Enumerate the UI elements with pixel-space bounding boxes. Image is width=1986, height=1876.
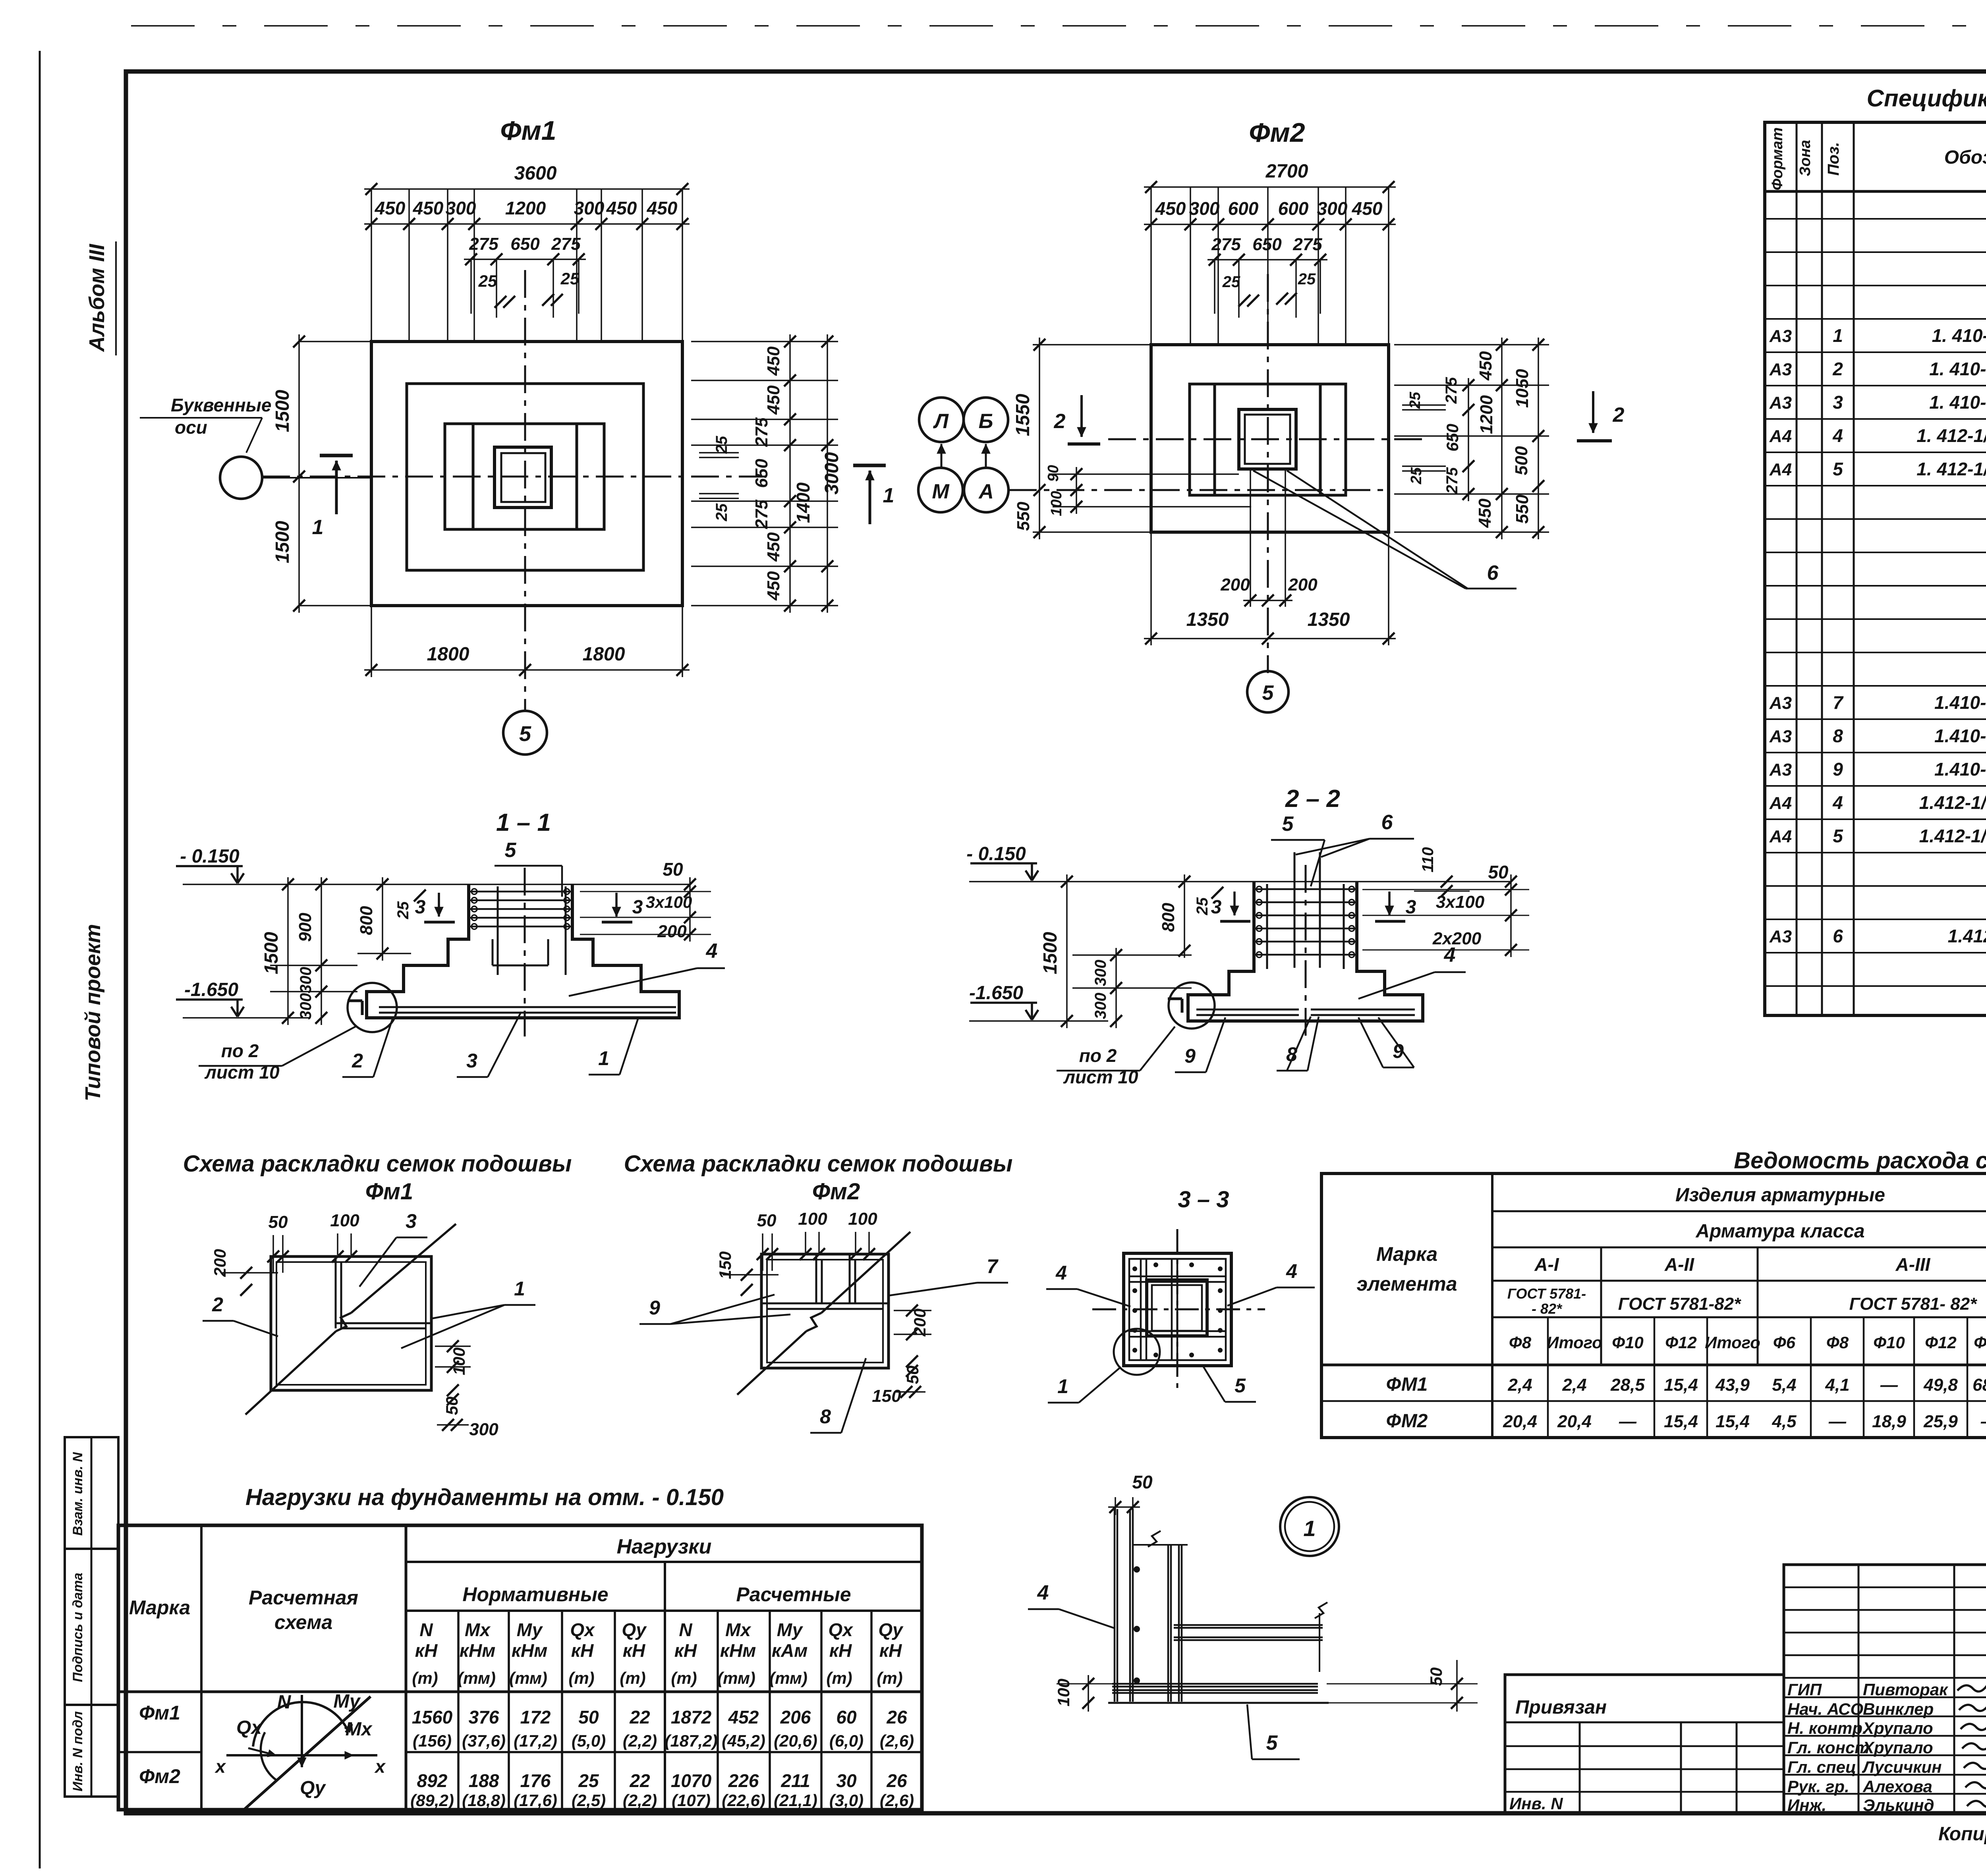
svg-text:Марка: Марка xyxy=(1376,1243,1437,1265)
svg-text:450: 450 xyxy=(606,198,637,218)
svg-text:Qх: Qх xyxy=(570,1619,595,1640)
svg-text:Расчетные: Расчетные xyxy=(736,1583,851,1606)
svg-text:7: 7 xyxy=(987,1255,999,1278)
svg-text:(2,6): (2,6) xyxy=(880,1731,914,1750)
svg-text:Фм2: Фм2 xyxy=(139,1765,180,1787)
svg-text:2700: 2700 xyxy=(1265,161,1308,182)
svg-text:3: 3 xyxy=(1211,897,1222,918)
svg-text:1: 1 xyxy=(883,484,894,507)
svg-text:5: 5 xyxy=(1833,826,1843,846)
plan Fm2 vertical centerline xyxy=(1267,274,1269,673)
svg-text:1400: 1400 xyxy=(793,482,813,523)
svg-text:Qу: Qу xyxy=(878,1619,904,1640)
svg-text:Рук. гр.: Рук. гр. xyxy=(1787,1777,1849,1796)
svg-text:А: А xyxy=(978,480,994,503)
svg-text:ГИП: ГИП xyxy=(1787,1680,1822,1699)
svg-text:ФМ1: ФМ1 xyxy=(1386,1374,1428,1395)
svg-text:450: 450 xyxy=(764,385,783,415)
svg-text:100: 100 xyxy=(330,1211,359,1230)
svg-text:1550: 1550 xyxy=(1012,394,1034,436)
svg-text:кН: кН xyxy=(879,1640,902,1661)
svg-text:450: 450 xyxy=(1155,198,1186,219)
section 1-1 section mark 3 right xyxy=(615,893,618,917)
svg-text:1872: 1872 xyxy=(671,1707,712,1727)
svg-text:300: 300 xyxy=(297,967,315,994)
svg-text:Фм1: Фм1 xyxy=(365,1179,413,1204)
detail 1 vertical bar pair inner xyxy=(1129,1509,1131,1702)
steel table diameter column lines xyxy=(1547,1317,1549,1438)
svg-text:50: 50 xyxy=(269,1212,288,1232)
svg-text:2,4: 2,4 xyxy=(1562,1375,1586,1395)
svg-text:18,9: 18,9 xyxy=(1872,1412,1906,1431)
svg-text:Хрупало: Хрупало xyxy=(1862,1719,1933,1737)
svg-text:(2,5): (2,5) xyxy=(572,1791,606,1810)
svg-text:Ф12: Ф12 xyxy=(1925,1333,1957,1352)
letter axes circle xyxy=(220,457,262,499)
svg-text:А-I: А-I xyxy=(1534,1254,1559,1275)
svg-text:x: x xyxy=(214,1756,226,1777)
svg-text:Альбом III: Альбом III xyxy=(85,243,109,352)
plan Fm2 bottom dimension 1350 1350 xyxy=(1150,532,1152,645)
svg-text:Гл. спец: Гл. спец xyxy=(1787,1758,1856,1776)
section 3-3 horizontal centerline xyxy=(1092,1309,1265,1310)
svg-text:172: 172 xyxy=(520,1707,551,1727)
specification table row lines xyxy=(1765,218,1986,220)
svg-text:1070: 1070 xyxy=(671,1770,712,1791)
scheme Fm1 internal mesh dividers xyxy=(335,1256,337,1328)
svg-text:4,1: 4,1 xyxy=(1825,1375,1849,1395)
svg-text:Qу: Qу xyxy=(300,1778,326,1799)
svg-text:Мх: Мх xyxy=(465,1619,491,1640)
svg-text:оси: оси xyxy=(175,417,207,438)
plan Fm2 left dimension 1550 550 xyxy=(1033,344,1151,345)
detail 1 rebar dots xyxy=(1134,1566,1140,1573)
section 3-3 detail circle xyxy=(1114,1329,1160,1375)
svg-text:Зона: Зона xyxy=(1797,140,1814,176)
svg-text:Му: Му xyxy=(333,1691,361,1712)
svg-text:50: 50 xyxy=(1488,862,1509,882)
section 2-2 dimension 1500 xyxy=(1066,874,1068,1028)
section 2-2 vertical centerline xyxy=(1305,865,1307,1038)
svg-text:(3,0): (3,0) xyxy=(829,1791,864,1810)
svg-text:650: 650 xyxy=(752,459,771,488)
svg-text:А4: А4 xyxy=(1769,827,1792,846)
plan Fm1 section mark 1 left xyxy=(320,454,353,457)
section 2-2 dimension 800 xyxy=(1184,874,1185,958)
svg-text:1. 410-3 выпуск 1: 1. 410-3 выпуск 1 xyxy=(1929,359,1986,379)
svg-text:Нагрузки: Нагрузки xyxy=(617,1535,712,1558)
svg-text:Изделия арматурные: Изделия арматурные xyxy=(1675,1185,1885,1206)
svg-text:Qх: Qх xyxy=(828,1619,854,1640)
svg-text:Расчетная: Расчетная xyxy=(249,1586,358,1609)
svg-text:2х200: 2х200 xyxy=(1432,929,1482,948)
svg-text:Нормативные: Нормативные xyxy=(462,1583,608,1606)
svg-text:275: 275 xyxy=(469,234,498,254)
svg-text:100: 100 xyxy=(798,1209,827,1229)
svg-text:Инж.: Инж. xyxy=(1787,1796,1826,1814)
svg-text:100: 100 xyxy=(848,1209,877,1229)
svg-text:Взам. инв. N: Взам. инв. N xyxy=(70,1451,85,1536)
svg-text:60: 60 xyxy=(836,1707,857,1727)
svg-text:26: 26 xyxy=(886,1770,907,1791)
svg-text:кАм: кАм xyxy=(772,1640,808,1661)
scheme Fm2 internal mesh dividers xyxy=(815,1254,817,1303)
svg-text:43,9: 43,9 xyxy=(1715,1375,1750,1395)
scheme Fm1 mesh square xyxy=(271,1256,431,1390)
svg-text:А3: А3 xyxy=(1769,393,1792,413)
svg-text:Ф14: Ф14 xyxy=(1974,1333,1986,1352)
svg-text:А3: А3 xyxy=(1769,760,1792,780)
svg-text:Qу: Qу xyxy=(622,1619,647,1640)
svg-text:(тм): (тм) xyxy=(509,1669,547,1687)
svg-text:26: 26 xyxy=(886,1707,907,1727)
plan Fm2 right overall dimensions 1050 500 550 xyxy=(1538,338,1539,539)
svg-text:—: — xyxy=(1619,1412,1637,1431)
svg-text:А4: А4 xyxy=(1769,427,1792,446)
svg-text:Фм1: Фм1 xyxy=(139,1702,180,1724)
svg-text:25: 25 xyxy=(713,436,730,454)
svg-text:1800: 1800 xyxy=(427,644,469,665)
svg-text:900: 900 xyxy=(296,913,315,942)
section 1-1 pedestal mesh horizontal bars xyxy=(469,891,572,893)
load table norm calc band line xyxy=(406,1610,922,1612)
svg-text:Ф10: Ф10 xyxy=(1612,1333,1644,1352)
svg-text:Ф8: Ф8 xyxy=(1826,1333,1849,1352)
plan Fm2 axis circle M xyxy=(918,468,963,512)
section 1-1 bottom level line xyxy=(183,1017,310,1019)
svg-text:188: 188 xyxy=(469,1770,499,1791)
svg-text:25: 25 xyxy=(1407,392,1424,409)
svg-text:300: 300 xyxy=(1092,960,1109,986)
plan Fm2 outer slab rectangle 2700x2250 xyxy=(1151,345,1389,532)
svg-text:(18,8): (18,8) xyxy=(462,1791,506,1810)
svg-text:Спецификация фундаментов: Спецификация фундаментов Фм1, Фм2 xyxy=(1867,85,1986,112)
specification table column lines xyxy=(1796,122,1798,1015)
svg-text:(т): (т) xyxy=(568,1669,594,1687)
svg-text:Инв. N подл: Инв. N подл xyxy=(70,1711,85,1791)
svg-text:Формат: Формат xyxy=(1769,127,1786,191)
svg-text:2: 2 xyxy=(352,1050,363,1072)
plan Fm2 right dimension chain 450 1200 450 xyxy=(1501,338,1503,539)
section 3-3 mesh vertical bar pairs xyxy=(1140,1259,1142,1360)
steel table frame xyxy=(1321,1173,1986,1438)
svg-text:50: 50 xyxy=(663,859,683,880)
svg-text:30: 30 xyxy=(836,1770,857,1791)
plan Fm2 axis A centerline xyxy=(1009,489,1389,491)
svg-text:300: 300 xyxy=(297,993,315,1020)
plan Fm1 overall top dimension 3600 xyxy=(364,188,690,190)
svg-text:по 2: по 2 xyxy=(221,1040,259,1061)
svg-text:300: 300 xyxy=(446,198,476,218)
svg-text:25: 25 xyxy=(560,269,580,288)
svg-text:А-II: А-II xyxy=(1664,1254,1694,1275)
section 3-3 mesh horizontal bar pairs xyxy=(1129,1276,1226,1278)
svg-text:Мх: Мх xyxy=(346,1719,373,1740)
svg-text:(17,2): (17,2) xyxy=(514,1731,557,1750)
plan Fm2 left dimension 90 100 xyxy=(1049,473,1239,475)
svg-text:Итого: Итого xyxy=(1705,1333,1760,1352)
svg-text:3: 3 xyxy=(415,897,426,918)
svg-text:А4: А4 xyxy=(1769,460,1792,479)
svg-text:15,4: 15,4 xyxy=(1716,1412,1750,1431)
svg-text:(5,0): (5,0) xyxy=(572,1731,606,1750)
svg-text:226: 226 xyxy=(728,1770,759,1791)
title block signature rows xyxy=(1784,1586,1986,1588)
section 2-2 anchor bars of embedded item 6 xyxy=(1294,852,1296,968)
section 1-1 bottom mesh C-1 xyxy=(379,1006,676,1008)
svg-text:(т): (т) xyxy=(412,1669,438,1687)
svg-text:3 – 3: 3 – 3 xyxy=(1178,1187,1229,1212)
svg-text:А3: А3 xyxy=(1769,727,1792,746)
svg-text:А3: А3 xyxy=(1769,927,1792,946)
svg-text:1.412-1/77 выпуск 3: 1.412-1/77 выпуск 3 xyxy=(1919,826,1986,846)
svg-text:(тм): (тм) xyxy=(458,1669,496,1687)
svg-text:3: 3 xyxy=(632,897,643,918)
svg-text:6: 6 xyxy=(1381,811,1393,834)
plan Fm1 top dimension chain 450 450 300 1200 300 450 450 xyxy=(364,223,690,225)
detail 1 break mark on bar xyxy=(1148,1531,1161,1547)
svg-text:кН: кН xyxy=(674,1640,697,1661)
plan Fm1 middle step rectangle xyxy=(407,384,643,570)
svg-text:100: 100 xyxy=(1054,1679,1073,1706)
svg-text:(2,2): (2,2) xyxy=(623,1731,657,1750)
plan Fm1 right extension lines xyxy=(691,341,838,342)
svg-text:1500: 1500 xyxy=(272,521,293,563)
svg-text:1: 1 xyxy=(312,516,324,539)
svg-text:800: 800 xyxy=(357,906,376,935)
svg-text:схема: схема xyxy=(274,1611,332,1633)
svg-text:450: 450 xyxy=(764,346,783,376)
svg-text:300: 300 xyxy=(1092,993,1109,1019)
svg-text:3: 3 xyxy=(1833,392,1843,413)
svg-text:8: 8 xyxy=(820,1405,831,1428)
svg-text:(т): (т) xyxy=(826,1669,852,1687)
svg-text:Итого: Итого xyxy=(1547,1333,1602,1352)
svg-text:элемента: элемента xyxy=(1356,1273,1457,1295)
svg-text:1. 410-3 выпуск1: 1. 410-3 выпуск1 xyxy=(1932,325,1986,346)
steel table class column lines xyxy=(1600,1247,1602,1365)
section 3-3 vertical centerline xyxy=(1177,1229,1178,1392)
detail 1 break mark right xyxy=(1315,1602,1327,1618)
svg-text:Инв. N: Инв. N xyxy=(1509,1794,1563,1813)
svg-text:275: 275 xyxy=(1443,467,1461,494)
svg-text:1. 412-1/77 выпуск 3: 1. 412-1/77 выпуск 3 xyxy=(1916,459,1986,479)
svg-text:9: 9 xyxy=(1184,1045,1196,1067)
svg-text:4: 4 xyxy=(1286,1260,1297,1282)
svg-text:2: 2 xyxy=(212,1293,223,1316)
margin stamp table xyxy=(65,1437,118,1797)
svg-text:90: 90 xyxy=(1045,465,1062,482)
svg-text:50: 50 xyxy=(578,1707,599,1727)
svg-text:22: 22 xyxy=(629,1770,650,1791)
plan Fm2 bottom axis circle 5 xyxy=(1247,671,1289,712)
plan Fm2 leader 6 to embedded items xyxy=(1253,471,1466,589)
svg-text:Ф8: Ф8 xyxy=(1509,1333,1532,1352)
svg-text:452: 452 xyxy=(728,1707,759,1727)
section 2-2 bottom mesh xyxy=(1196,1009,1299,1011)
svg-text:(187,2): (187,2) xyxy=(665,1731,717,1750)
plan Fm2 right dimension 275 650 275 xyxy=(1468,378,1469,501)
svg-text:49,8: 49,8 xyxy=(1923,1375,1958,1395)
plan Fm1 section mark 1 right xyxy=(853,464,886,467)
svg-text:Схема раскладки семок подош: Схема раскладки семок подошвы xyxy=(183,1151,572,1177)
plan Fm1 bottom axis circle 5 xyxy=(503,711,547,755)
svg-text:Нагрузки на фундаменты н: Нагрузки на фундаменты на отм. - 0.150 xyxy=(245,1484,724,1510)
detail 1 vertical bar pair outer xyxy=(1114,1509,1116,1702)
load table header bottom line xyxy=(118,1691,922,1693)
svg-text:Гл. конст: Гл. конст xyxy=(1787,1738,1870,1757)
svg-text:А3: А3 xyxy=(1769,326,1792,346)
svg-text:Нач. АСО: Нач. АСО xyxy=(1787,1700,1863,1718)
svg-text:275: 275 xyxy=(551,234,581,254)
svg-text:1.410-3 выпуск1: 1.410-3 выпуск1 xyxy=(1934,692,1986,713)
svg-text:(17,6): (17,6) xyxy=(514,1791,557,1810)
svg-text:4: 4 xyxy=(1832,425,1843,446)
svg-text:800: 800 xyxy=(1159,903,1178,932)
svg-text:9: 9 xyxy=(1833,759,1843,780)
svg-text:Н. контр.: Н. контр. xyxy=(1787,1719,1867,1737)
section 1-1 pedestal inner step lines xyxy=(492,939,494,965)
load diagram axes xyxy=(226,1754,377,1756)
load diagram Qx arrow xyxy=(248,1748,276,1755)
svg-text:Винклер: Винклер xyxy=(1863,1700,1934,1718)
svg-text:275: 275 xyxy=(1292,235,1322,254)
svg-text:А3: А3 xyxy=(1769,693,1792,713)
svg-text:(37,6): (37,6) xyxy=(462,1731,506,1750)
svg-text:Поз.: Поз. xyxy=(1825,142,1842,176)
svg-text:376: 376 xyxy=(469,1707,499,1727)
svg-text:206: 206 xyxy=(780,1707,811,1727)
svg-text:(45,2): (45,2) xyxy=(722,1731,765,1750)
section 2-2 dimension 300 300 xyxy=(1115,948,1117,1028)
svg-text:Ведомость расхода стали: Ведомость расхода стали на элемент, кг xyxy=(1734,1148,1986,1173)
svg-text:100: 100 xyxy=(1048,491,1065,516)
svg-text:(89,2): (89,2) xyxy=(410,1791,454,1810)
svg-text:550: 550 xyxy=(1014,502,1033,531)
svg-text:1. 410-3 выпуск 1: 1. 410-3 выпуск 1 xyxy=(1929,392,1986,413)
detail 1 upper horizontal bar pair xyxy=(1174,1624,1323,1626)
svg-text:1 – 1: 1 – 1 xyxy=(496,809,551,836)
svg-text:9: 9 xyxy=(649,1297,660,1319)
section 2-2 mesh vertical bars xyxy=(1266,884,1268,969)
load diagram moment arc My xyxy=(253,1702,348,1747)
plan Fm2 top dimension extension lines xyxy=(1150,187,1152,345)
svg-text:211: 211 xyxy=(780,1770,810,1791)
svg-text:20,4: 20,4 xyxy=(1557,1412,1592,1431)
plan Fm1 inner step rectangle xyxy=(445,424,604,529)
section 2-2 section mark 3 right xyxy=(1388,892,1391,915)
svg-text:4: 4 xyxy=(1055,1262,1067,1284)
svg-text:Хрупало: Хрупало xyxy=(1862,1738,1933,1757)
svg-text:Фм1: Фм1 xyxy=(500,116,556,146)
svg-text:Обозначение: Обозначение xyxy=(1944,147,1986,168)
svg-text:200: 200 xyxy=(1220,575,1250,594)
svg-text:25: 25 xyxy=(478,272,497,290)
svg-text:(22,6): (22,6) xyxy=(722,1791,765,1810)
svg-text:650: 650 xyxy=(1443,424,1462,452)
steel table data row line xyxy=(1321,1400,1986,1402)
svg-text:3000: 3000 xyxy=(821,452,842,494)
section 3-3 pedestal inner square xyxy=(1152,1285,1202,1331)
svg-text:300: 300 xyxy=(1189,198,1220,219)
svg-text:1200: 1200 xyxy=(505,198,546,218)
svg-text:1.410-3 выпуск1: 1.410-3 выпуск1 xyxy=(1934,759,1986,780)
svg-text:(2,6): (2,6) xyxy=(880,1791,914,1810)
svg-text:(2,2): (2,2) xyxy=(623,1791,657,1810)
svg-text:Копировал: Копировал xyxy=(1938,1824,1986,1845)
plan Fm1 bottom dimension 1800 1800 xyxy=(371,606,372,677)
svg-text:(21,1): (21,1) xyxy=(774,1791,817,1810)
svg-text:4: 4 xyxy=(706,940,718,963)
load table nagruzki band line xyxy=(406,1561,922,1563)
svg-text:50: 50 xyxy=(1132,1472,1153,1492)
section 3-3 pedestal square xyxy=(1147,1280,1207,1336)
svg-text:68,6: 68,6 xyxy=(1972,1375,1986,1395)
svg-text:N: N xyxy=(419,1619,433,1640)
svg-text:25: 25 xyxy=(1298,270,1316,288)
svg-text:ГОСТ 5781- 82*: ГОСТ 5781- 82* xyxy=(1849,1294,1978,1314)
plan Fm1 right dimension chain 450 450 275 650 275 450 450 xyxy=(789,334,791,613)
svg-text:Мх: Мх xyxy=(725,1619,752,1640)
plan Fm2 column glass inner square xyxy=(1245,415,1290,464)
svg-text:300: 300 xyxy=(1317,198,1348,219)
plan Fm2 top dimension 275 650 275 xyxy=(1207,259,1327,261)
svg-text:Qх: Qх xyxy=(236,1717,263,1738)
svg-text:300: 300 xyxy=(574,198,605,218)
load table value column lines xyxy=(457,1611,460,1810)
svg-text:15,4: 15,4 xyxy=(1664,1412,1698,1431)
svg-text:5: 5 xyxy=(1262,681,1274,704)
specification table header row line xyxy=(1765,190,1986,193)
svg-text:15,4: 15,4 xyxy=(1664,1375,1698,1395)
section 3-3 rebar dots xyxy=(1132,1266,1137,1271)
section 2-2 foundation stepped outline xyxy=(1188,882,1423,1021)
svg-text:50: 50 xyxy=(903,1366,922,1384)
svg-text:Му: Му xyxy=(517,1619,543,1640)
section 2-2 top level line xyxy=(969,881,1511,882)
svg-text:- 0.150: - 0.150 xyxy=(180,846,240,867)
svg-text:А3: А3 xyxy=(1769,360,1792,379)
svg-text:6: 6 xyxy=(1487,562,1499,585)
svg-text:2: 2 xyxy=(1613,403,1625,427)
svg-text:450: 450 xyxy=(375,198,406,218)
section 1-1 mesh vertical bars xyxy=(497,886,499,975)
plan Fm2 section mark 2 right xyxy=(1592,391,1594,433)
svg-text:1050: 1050 xyxy=(1513,369,1532,408)
plan Fm1 horizontal centerline xyxy=(262,476,771,478)
svg-text:1500: 1500 xyxy=(1040,932,1061,974)
svg-text:1350: 1350 xyxy=(1308,609,1350,630)
load table data row line xyxy=(118,1751,201,1753)
svg-text:(т): (т) xyxy=(620,1669,645,1687)
svg-text:(156): (156) xyxy=(413,1731,452,1750)
svg-text:ГОСТ 5781-: ГОСТ 5781- xyxy=(1507,1285,1586,1302)
svg-text:6: 6 xyxy=(1833,926,1843,946)
svg-text:3: 3 xyxy=(1406,897,1416,918)
svg-text:(107): (107) xyxy=(672,1791,711,1810)
svg-text:8: 8 xyxy=(1286,1043,1297,1065)
svg-text:25: 25 xyxy=(1222,273,1240,291)
svg-text:450: 450 xyxy=(647,198,678,218)
svg-text:275: 275 xyxy=(752,500,771,529)
specification table frame xyxy=(1765,122,1986,1015)
svg-text:(6,0): (6,0) xyxy=(829,1731,864,1750)
section 2-2 detail circle xyxy=(1169,982,1215,1029)
svg-text:7: 7 xyxy=(1833,692,1844,713)
svg-text:600: 600 xyxy=(1278,198,1309,219)
plan Fm1 top dimension extension lines xyxy=(371,189,372,342)
svg-text:28,5: 28,5 xyxy=(1610,1375,1645,1395)
